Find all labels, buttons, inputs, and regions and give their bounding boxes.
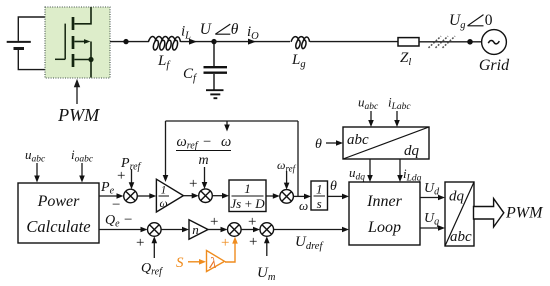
summing junction Q [148,223,162,237]
source arrow [75,41,86,43]
svg-text:n: n [192,222,199,237]
block Inner Loop [349,182,420,245]
svg-text:ω: ω [159,198,167,210]
wire to Js+D [212,193,229,199]
svg-text:Loop: Loop [367,219,401,236]
block 1/(Js+D) [229,180,266,212]
svg-text:+: + [221,235,229,251]
ground [206,90,224,98]
wire node to Lg with iO arrow [214,39,290,45]
svg-text:Grid: Grid [479,57,510,74]
svg-text:0: 0 [485,12,493,29]
svg-text:Js + D: Js + D [230,196,265,211]
PWM input arrow [74,79,80,104]
svg-text:PWM: PWM [505,205,544,222]
impedance Zl [398,38,419,46]
wire 1/s to Inner Loop [328,194,350,200]
svg-text:abc: abc [347,132,369,148]
svg-text:m: m [198,153,208,168]
svg-text:+: + [136,235,144,251]
svg-text:θ: θ [231,21,239,38]
amplifier n [189,220,208,239]
summing junction omega [280,190,294,204]
svg-text:ω: ω [221,134,231,150]
arrow Qref up [152,236,158,258]
svg-text:1: 1 [244,181,251,196]
svg-text:dq: dq [404,143,420,159]
svg-text:ω: ω [299,198,308,213]
summing junction droop [199,189,213,203]
transistor Q1 (inside inverter) [55,7,94,78]
channel bar middle [72,36,75,49]
svg-text:S: S [176,255,184,271]
svg-text:s: s [317,196,322,211]
wire Q sum to n [161,227,189,233]
svg-text:dq: dq [449,189,465,205]
arrow Pref down [129,169,135,189]
wire Udref to Inner Loop [274,227,349,233]
summing junction U2 [260,223,274,237]
orange wire lambda to sum1 [225,237,238,262]
svg-text:1: 1 [161,185,167,197]
channel bar bottom [72,54,75,67]
wire omega to 1/s [293,194,311,200]
PWM block arrow [474,199,504,227]
feedback right drop to omega node [297,121,299,196]
orange amplifier lambda [207,251,225,273]
wire Lf to node with iL arrow [181,39,215,45]
block abc/dq [343,127,429,159]
svg-text:θ: θ [330,179,337,194]
svg-text:U: U [200,21,213,38]
source vertical wire [90,42,92,78]
amplifier 1/omega [156,179,183,212]
wire 1/w to droop sum [183,193,198,199]
svg-text:+: + [210,214,218,230]
summing junction P [124,189,138,203]
svg-text:+: + [248,214,256,230]
arrow droop to sum [202,167,208,189]
block dq/abc [445,182,474,246]
node dot before grid [467,39,473,45]
wire Pe [99,193,124,199]
junction dot [88,57,93,62]
inductor Lg [291,37,310,49]
svg-text:Power: Power [37,193,81,210]
svg-text:PWM: PWM [57,105,100,125]
arrow Um up [264,236,270,256]
inverter green box [45,7,110,78]
node U dot [211,39,216,44]
wire P sum to 1/w triangle [137,193,156,199]
svg-text:Calculate: Calculate [26,217,90,236]
svg-text:−: − [203,134,211,150]
feedback left drop arrow into 1/w [163,121,169,182]
arrow theta to abc/dq [326,140,343,146]
inductor Lf [148,36,180,50]
svg-text:Inner: Inner [366,193,402,210]
arrow u_dq down [367,159,373,182]
arrow omega_ref down [284,171,290,190]
gate lead [55,58,65,60]
svg-text:θ: θ [315,137,322,152]
wire Js+D to omega sum [266,193,280,199]
svg-text:−: − [124,212,132,228]
channel bar top [72,17,75,30]
svg-text:abc: abc [450,229,472,245]
svg-text:+: + [189,176,197,192]
feedback top wire [166,120,299,122]
drain wire [75,7,92,24]
feedback drop arrow into droop fraction [224,121,230,132]
wire Qe [99,227,148,233]
svg-text:+: + [249,234,257,250]
wire Lg to Zl [310,41,398,43]
junction node dot [123,39,128,44]
wire Ud out [420,195,445,201]
wire sum1 to sum2 [241,227,260,233]
svg-text:1: 1 [316,182,323,197]
capacitor Cf [204,42,228,90]
arrow i_oabc [79,163,85,183]
svg-text:λ: λ [209,255,217,272]
block 1/s [311,181,328,211]
summing junction U1 [228,223,242,237]
arrow u_abc down [368,111,374,127]
arrow i_Ldq down [397,159,403,182]
block Power Calculate [18,183,99,243]
battery (DC source) [7,17,45,70]
arrow i_Labc down [394,111,400,127]
svg-text:+: + [117,168,125,184]
three-phase slashes [429,36,456,48]
wire inverter output [110,41,149,43]
wire Uq out [420,225,445,231]
svg-text:−: − [112,197,120,213]
grid AC source [482,30,507,55]
droop fraction (w_ref - w)/m [176,134,231,168]
gate plate [64,24,66,60]
arrow u_abc [34,163,40,183]
body wire [75,59,92,61]
orange arrow S to lambda [188,259,206,265]
wire n to sum1 [208,227,228,233]
wire Zl to grid [419,41,481,43]
